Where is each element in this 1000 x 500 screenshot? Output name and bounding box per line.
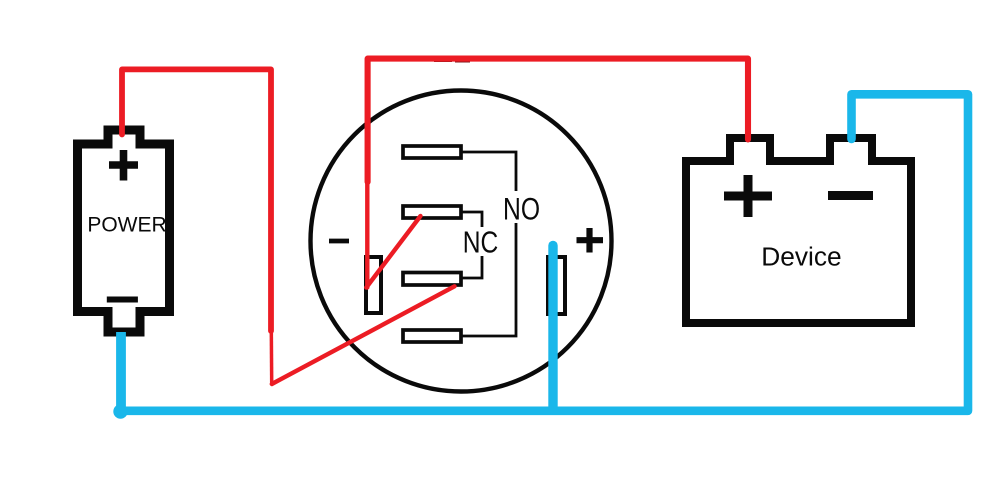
switch terminal pin 2 bbox=[403, 206, 461, 218]
partially hidden label under top red wire bbox=[434, 59, 477, 63]
wire: NO bracket (pin1 to pin4) bbox=[461, 152, 516, 336]
wire: NC bracket (pin2 to pin3) bbox=[461, 212, 482, 278]
device minus terminal marker bbox=[828, 191, 873, 200]
switch plus label bbox=[577, 228, 604, 253]
label NO (with white halo over bracket) bbox=[500, 191, 544, 223]
red wire: thin segment down to corner bbox=[270, 329, 274, 383]
cyan wire: battery - down to rail bbox=[116, 332, 126, 409]
battery B1 (POWER) outline bbox=[78, 130, 170, 332]
device plus terminal marker bbox=[724, 175, 772, 217]
red wire: switch lamp lower segment bbox=[365, 178, 369, 288]
cyan wire: switch NO riser to bottom rail bbox=[548, 246, 557, 411]
battery plus terminal marker bbox=[109, 150, 138, 181]
switch lamp terminal (left vertical) bbox=[366, 257, 381, 313]
label NC (with white halo over bracket) bbox=[458, 227, 503, 256]
battery minus terminal marker bbox=[107, 297, 138, 303]
switch terminal pin 1 bbox=[403, 146, 461, 158]
red wire: top rail from switch lamp across to device + bbox=[368, 59, 748, 182]
push-button switch S1 body circle bbox=[311, 91, 612, 392]
svg-text:NC: NC bbox=[463, 225, 499, 259]
svg-text:Device: Device bbox=[761, 242, 841, 272]
svg-text:POWER: POWER bbox=[87, 214, 166, 237]
device D1 outline bbox=[686, 138, 911, 323]
cyan junction dot at battery riser / rail bbox=[113, 404, 127, 418]
red wire: diagonal from pin 2 to lamp terminal bbox=[366, 216, 420, 288]
red wire: diagonal from corner to pin 3 bbox=[272, 286, 455, 384]
red wire: battery + up, across and down to junction bbox=[122, 69, 271, 331]
switch terminal pin 4 bbox=[403, 330, 461, 342]
cyan wire: device - up, across and down right side, bottom rail bbox=[121, 94, 968, 411]
switch minus label bbox=[329, 239, 349, 244]
switch lamp terminal (right vertical) bbox=[548, 257, 565, 314]
switch terminal pin 3 bbox=[403, 273, 461, 286]
svg-text:NO: NO bbox=[503, 190, 540, 226]
